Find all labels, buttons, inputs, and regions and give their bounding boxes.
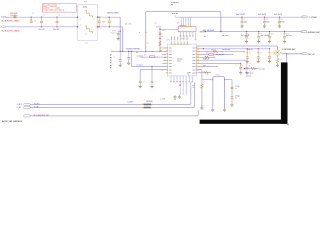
wire bottom 2 corner <box>193 106 194 107</box>
ground under C8 <box>128 61 130 63</box>
IC U1 right pads <box>196 47 198 48</box>
wire R9 <box>198 69 202 71</box>
svg-text:xxx xxxx xxx: xxx xxxx xxx <box>222 49 230 51</box>
IC U1 top stubs <box>171 41 173 44</box>
IC U1 bottom pads <box>170 81 171 82</box>
pad right of D1 <box>157 57 159 58</box>
rail2 series body <box>202 31 205 32</box>
svg-text:C?: C? <box>260 52 262 54</box>
svg-text:100n: 100n <box>281 22 284 24</box>
svg-text:xxxx: xxxx <box>169 69 172 71</box>
capacitor C2 bridging <box>41 17 43 21</box>
choke coil L1a <box>85 10 93 17</box>
pad on VDD rail x137 <box>136 52 138 53</box>
IC U1 top pads <box>171 43 173 44</box>
capacitor C1 stub <box>30 17 32 20</box>
junction tap on x120 <box>120 31 121 32</box>
bead FB3 pads <box>142 107 144 108</box>
svg-text:4xx7 xxRx7R: 4xx7 xxRx7R <box>261 35 270 37</box>
pad column b <box>160 50 162 51</box>
pad R7 end <box>240 63 241 64</box>
pad R4 <box>197 54 199 55</box>
wire bottom 2 <box>30 107 193 109</box>
svg-text:xxx xxxx: xxx xxxx <box>246 75 251 77</box>
svg-text:C?: C? <box>58 15 60 17</box>
svg-text:xxxx: xxxx <box>192 54 195 56</box>
svg-text:C?: C? <box>286 33 288 35</box>
pi network dot <box>277 52 278 53</box>
resistor R1h on R3 <box>213 51 218 53</box>
bead FB2 body <box>144 104 152 106</box>
wire R3 <box>198 51 244 53</box>
svg-text:xxx xxxx xxx: xxx xxxx xxx <box>246 73 254 75</box>
junction W1b at C5 <box>109 17 110 18</box>
svg-text:xxx_xxx_xxx: xxx_xxx_xxx <box>216 54 224 56</box>
wire bottom 1 vertical <box>190 82 192 103</box>
capacitor C20 on R2 <box>258 48 259 49</box>
IC U1 top pin labels <box>170 36 173 40</box>
junction crystal right leg <box>224 79 225 80</box>
capacitor C9 on column <box>159 32 162 35</box>
svg-text:xxxxxxxxx: xxxxxxxxx <box>43 8 50 10</box>
pad R1 <box>197 45 199 46</box>
junction VDD rail x120 <box>120 51 121 52</box>
capacitor C4 bridging <box>98 17 100 21</box>
pad R6 <box>197 60 199 61</box>
wire bottom 1 corner <box>190 103 191 104</box>
capacitor C13 on rail2 <box>246 31 247 32</box>
pad R9 <box>197 69 199 70</box>
bead FB3 body <box>144 107 151 109</box>
pi network pads <box>277 49 279 50</box>
wire vert x140 <box>139 70 141 81</box>
svg-text:@100MHz: @100MHz <box>10 15 17 17</box>
svg-text:C?: C? <box>271 52 273 54</box>
black frame bottom bar <box>200 120 288 124</box>
wire W1b <box>98 16 120 18</box>
svg-text:AFTER_FAIL_HARNESS: AFTER_FAIL_HARNESS <box>2 120 23 123</box>
wire caps column lower <box>231 99 233 103</box>
junction rail x128 <box>128 51 129 52</box>
wire R2 <box>198 48 269 50</box>
svg-text:FB? 600R: FB? 600R <box>10 13 18 15</box>
svg-text:R? x0x: R? x0x <box>212 50 217 52</box>
svg-text:xxx xxx xxx: xxx xxx xxx <box>137 55 144 57</box>
svg-text:C?: C? <box>43 15 45 17</box>
wire R4 <box>198 54 231 56</box>
capacitor C16 on rail2 <box>284 31 285 32</box>
wire loop top edge <box>147 10 220 12</box>
svg-text:xxxxxx: xxxxxx <box>56 8 61 10</box>
ferrite bead FB1 <box>13 16 16 18</box>
svg-text:xxxxx: xxxxx <box>85 42 89 44</box>
capacitor C25 on R7 <box>240 63 242 67</box>
wire R10 <box>198 71 210 73</box>
svg-text:x5x: x5x <box>161 36 163 38</box>
chip U2 top stub 4 <box>187 17 189 26</box>
connector P8 <box>24 115 31 117</box>
connector P1 (VL_IN plus) <box>2 16 6 18</box>
svg-text:100n: 100n <box>244 22 247 24</box>
svg-text:IO_B6: IO_B6 <box>17 107 21 109</box>
svg-text:xx xx xxx: xx xx xxx <box>172 13 178 15</box>
svg-text:U?x: U?x <box>167 39 170 41</box>
chip U2 top stub 3 <box>185 17 187 26</box>
svg-text:x x xxxxx xxxxxx xxxx xx xxxx: x x xxxxx xxxxxx xxxx xx xxxx xxx <box>43 10 65 12</box>
svg-text:VL_IN_RIGHT0_MINUS: VL_IN_RIGHT0_MINUS <box>2 30 21 32</box>
chip U2 bottom stub 3 <box>186 32 188 35</box>
junction VDD rail x160 <box>159 51 160 52</box>
ground IC bottom 1 <box>174 95 176 97</box>
wire bottom 2 vertical <box>194 82 196 106</box>
svg-text:xxxx: xxxx <box>169 54 172 56</box>
svg-text:R?x: R?x <box>193 85 196 87</box>
pad R2 <box>197 48 199 49</box>
wire W2b <box>98 26 122 28</box>
wire bottom 3 corner <box>197 115 198 116</box>
svg-text:xxx: xxx <box>171 4 173 6</box>
connector P5 antenna <box>302 53 307 55</box>
pad on loop vertical <box>145 32 147 33</box>
svg-text:xxxx: xxxx <box>169 48 172 50</box>
chip U2 top pads <box>181 26 183 27</box>
junction U2 left pin <box>159 29 160 30</box>
capacitor C1 pad <box>30 19 32 20</box>
wire column x160 <box>159 26 161 52</box>
wire diode row <box>140 56 167 58</box>
svg-text:xxxx: xxxx <box>169 63 172 65</box>
junction W2b at C4 <box>99 26 100 27</box>
chip U2 bottom stub 1 <box>180 32 182 35</box>
svg-text:x0x: x0x <box>207 74 209 76</box>
svg-text:4xx7 xxx: 4xx7 xxx <box>286 35 292 37</box>
IC U1 bottom stubs <box>170 76 172 81</box>
choke pin pad 2 <box>97 17 99 18</box>
svg-text:VL_B6: VL_B6 <box>34 107 39 109</box>
junction VDD rail x122 <box>122 51 123 52</box>
common-mode choke FL1 box <box>78 5 98 41</box>
junction column <box>159 38 160 39</box>
svg-text:5xx7 2Rx7R: 5xx7 2Rx7R <box>258 14 267 16</box>
capacitor C7 under corner <box>119 52 121 59</box>
ground below R4v <box>277 63 279 65</box>
chip U2 body <box>178 27 196 32</box>
capacitor C1 plates <box>30 20 33 23</box>
ground caps column <box>231 103 233 105</box>
choke pin pad 1 <box>77 17 79 18</box>
svg-text:xxxxx: xxxxx <box>83 7 87 9</box>
svg-text:C? 12p: C? 12p <box>235 86 240 88</box>
wire loop right vertical <box>220 13 222 32</box>
wire loop top corner left <box>146 11 147 12</box>
pad VDD3V3 left end <box>111 51 113 52</box>
component D2 on R4 <box>209 54 214 56</box>
IC U1 left pads <box>166 47 168 48</box>
wire R6 <box>198 59 243 61</box>
connector P7 <box>24 106 31 108</box>
vertical label column <box>110 54 112 57</box>
chip U2 left pin wire <box>160 28 178 30</box>
junction IC bottom <box>179 84 180 85</box>
svg-text:C?: C? <box>281 19 283 21</box>
svg-text:D?: D? <box>144 55 146 57</box>
svg-text:C?: C? <box>34 21 36 23</box>
choke coil L1b <box>85 26 93 33</box>
pad R5 end <box>214 57 216 58</box>
ground under C7 <box>119 63 121 65</box>
svg-text:FB? 600R: FB? 600R <box>146 101 153 103</box>
pad R3 end <box>243 51 245 52</box>
wire crystal U loop <box>213 77 225 108</box>
pad on loop top edge <box>175 11 177 12</box>
svg-text:VL_IN_RIGHT0_MINUS: VL_IN_RIGHT0_MINUS <box>2 21 21 23</box>
bead FB2 pads <box>142 104 144 105</box>
resistor R6h <box>251 67 256 69</box>
junction rail2 x220 loop <box>220 31 221 32</box>
svg-text:xxxx: xxxx <box>192 66 195 68</box>
svg-text:D?x: D?x <box>156 26 159 28</box>
svg-text:xxx xx xxxx xx xxx xxx: xxx xx xxxx xx xxx xxx <box>43 4 57 6</box>
junction W2b at C5 <box>109 26 110 27</box>
svg-text:xxx xxx xx: xxx xxx xx <box>137 65 143 67</box>
capacitor C8 <box>128 52 130 57</box>
junction crystal left leg <box>212 79 213 80</box>
wire P1 to FB1 <box>6 16 14 18</box>
svg-text:C?: C? <box>248 33 250 35</box>
wire antenna out <box>282 53 302 55</box>
svg-text:U?x: U?x <box>177 22 180 24</box>
svg-text:100n 1u: 100n 1u <box>248 49 253 51</box>
wire R7 <box>198 62 241 64</box>
svg-text:xxxxx: xxxxx <box>162 48 166 50</box>
ground crystal left <box>212 108 214 110</box>
junction on W1 <box>31 17 32 18</box>
junction antenna <box>286 53 287 54</box>
svg-text:xxxx: xxxx <box>192 63 195 65</box>
choke pin dot 1 <box>77 17 78 18</box>
capacitor C19 on R2 <box>247 48 248 49</box>
wire VDD3V3 rail <box>112 50 168 52</box>
wire vertical from W2 corner <box>122 28 124 52</box>
svg-text:xxxxx: xxxxx <box>162 63 166 65</box>
wire IC left row7 <box>131 66 167 68</box>
resistor R2h on R5 <box>205 56 210 58</box>
IC U1 body <box>167 44 196 76</box>
resistor R3h on R10 <box>204 71 209 73</box>
svg-text:P_5VRIGHT: P_5VRIGHT <box>309 17 317 19</box>
junction row7 x152 <box>151 66 152 67</box>
svg-text:C?: C? <box>249 52 251 54</box>
ground under C6 <box>117 37 119 39</box>
chip U2 bottom pads <box>180 31 182 32</box>
capacitor C5 bridging <box>108 17 110 21</box>
svg-text:xxx: xxx <box>164 57 166 59</box>
capacitor C23 crystal <box>231 86 234 89</box>
wire W2b corner <box>121 26 124 29</box>
svg-text:xxxx: xxxx <box>192 72 195 74</box>
junction rail2 x205 <box>205 31 206 32</box>
svg-text:C?x: C?x <box>110 32 113 34</box>
capacitor C3 bridging <box>56 17 58 21</box>
wire bottom 3 vertical <box>197 110 199 115</box>
wire caps column <box>231 80 233 97</box>
wire vertical x131 tap <box>130 51 132 66</box>
wire W2 bottom input rail <box>6 26 78 28</box>
svg-text:D?x: D?x <box>206 52 209 54</box>
svg-text:Y?x xx: Y?x xx <box>216 74 221 76</box>
wire R1 corner <box>276 46 277 49</box>
svg-text:R?: R? <box>280 59 282 61</box>
svg-text:xxxx: xxxx <box>203 65 206 67</box>
svg-text:C?: C? <box>249 63 251 65</box>
svg-text:5xx7 2Rx7R: 5xx7 2Rx7R <box>274 14 283 16</box>
svg-text:xx xxx: xx xxx <box>112 30 116 32</box>
resistor on column <box>159 41 161 46</box>
svg-text:4xxx7 2Rx7R: 4xxx7 2Rx7R <box>236 14 246 16</box>
chip U2 top stub 2 <box>183 17 185 26</box>
svg-text:xxxxxxxxxx: xxxxxxxxxx <box>50 6 58 8</box>
wire jog right caps column <box>225 79 233 81</box>
pad R8 <box>197 66 199 67</box>
connector P4 rail2 <box>301 31 306 33</box>
wire R8 <box>198 66 217 68</box>
svg-text:xxxxxxx: xxxxxxx <box>177 59 182 61</box>
wire bottom 1 <box>30 103 189 105</box>
wire loop left vertical <box>145 13 147 52</box>
junction W1 at C3 <box>56 17 57 18</box>
svg-text:xxxxx: xxxxx <box>177 60 181 62</box>
connector P2 (VL_IN minus) <box>2 26 6 28</box>
capacitor C11 on rail1 <box>264 17 265 18</box>
wire left column vertical <box>201 70 203 106</box>
capacitor C18 <box>139 80 142 83</box>
svg-text:xxxx: xxxx <box>192 57 195 59</box>
wire vertical from W1 corner <box>119 18 121 51</box>
svg-text:x x x x x x: x x x x x x <box>179 25 185 27</box>
svg-text:xxx xx xxx: xxx xx xxx <box>222 35 229 37</box>
resistor R4v below pi <box>277 55 279 58</box>
choke pin dot 4 <box>97 26 98 27</box>
pad R8 end <box>216 66 218 67</box>
pad R3 <box>197 51 199 52</box>
wire W1 top input rail <box>17 16 78 18</box>
svg-text:C?: C? <box>271 33 273 35</box>
choke pin pad 4 <box>97 26 99 27</box>
capacitor C12 on rail1 <box>279 17 280 18</box>
svg-text:xx xxx xx xx: xx xxx xx xx <box>171 2 179 4</box>
capacitor C22 end of R6 <box>244 59 247 61</box>
junction row y68.5 <box>244 68 245 69</box>
svg-text:100n 16V: 100n 16V <box>53 29 60 31</box>
svg-text:100n: 100n <box>266 22 269 24</box>
pad R7 <box>197 63 199 64</box>
IC U1 bottom stub continuations <box>179 82 181 95</box>
junction W2 at C2 <box>41 26 42 27</box>
pad column a <box>160 47 162 48</box>
capacitor C15 on rail2 <box>269 31 270 32</box>
svg-text:4xx7 xxRx7R: 4xx7 xxRx7R <box>241 35 250 37</box>
wire rail2 <box>200 31 301 33</box>
ground IC bottom 2 <box>179 95 181 97</box>
svg-text:xxxx: xxxx <box>169 66 172 68</box>
svg-text:xxx: xxx <box>147 42 149 44</box>
capacitor C17 <box>151 80 154 83</box>
svg-text:x x xx: x x xx <box>43 6 47 8</box>
svg-text:xxxx: xxxx <box>113 33 116 35</box>
wire loop top corner right <box>220 11 221 12</box>
choke pin dot 2 <box>97 17 98 18</box>
svg-text:xxxx: xxxx <box>192 48 195 50</box>
wire bottom 3 <box>30 115 197 117</box>
svg-text:x 5.1: x 5.1 <box>201 105 204 107</box>
stub below rail2 start <box>195 32 197 39</box>
wire row y68.5 <box>244 68 258 70</box>
junction W2 at C3 <box>56 26 57 27</box>
wire R1 antenna top <box>198 45 276 47</box>
svg-text:xxxx: xxxx <box>192 69 195 71</box>
svg-text:C?: C? <box>261 33 263 35</box>
chip U2 top stub 1 <box>180 17 182 26</box>
wire IC left row8 <box>140 69 167 71</box>
black frame vertical bar <box>281 62 288 123</box>
svg-text:xxx xx xxx: xxx xx xxx <box>259 68 265 70</box>
wire W1b corner <box>118 16 121 19</box>
svg-text:C?: C? <box>266 19 268 21</box>
junction VDD rail x145 <box>145 51 146 52</box>
svg-text:xxxxxx: xxxxxx <box>162 54 167 56</box>
wire rail1 VDD <box>175 16 302 18</box>
svg-text:IO_B12: IO_B12 <box>17 104 22 106</box>
svg-text:xxxx: xxxx <box>169 57 172 59</box>
connector P6 <box>24 103 31 105</box>
wire R5 <box>198 56 214 58</box>
rail2 series pad a <box>200 31 202 32</box>
svg-text:xxxx: xxxx <box>169 72 172 74</box>
svg-text:xxxx: xxxx <box>192 51 195 53</box>
chip U2 top stub 5 <box>190 17 192 26</box>
pi network diagonals <box>275 50 280 54</box>
capacitor C10 on rail1 <box>241 17 242 18</box>
svg-text:VL_B12: VL_B12 <box>34 103 39 105</box>
chip U2 bottom stub 2 <box>183 32 185 35</box>
svg-text:L?: L? <box>33 13 35 15</box>
ground crystal right <box>224 108 226 110</box>
capacitor C24 crystal <box>231 96 234 99</box>
svg-text:C?: C? <box>114 57 116 59</box>
diode D1 <box>149 56 155 58</box>
ground under C18 <box>139 84 141 86</box>
svg-text:xxxx: xxxx <box>169 51 172 53</box>
choke pin pad 3 <box>77 26 79 27</box>
svg-text:C?: C? <box>155 81 157 83</box>
svg-text:xxx: xxx <box>162 30 164 32</box>
pad near W1 corner <box>125 23 127 24</box>
svg-text:VDD5V0_RIGHT: VDD5V0_RIGHT <box>107 13 119 15</box>
junction W1 at C2 <box>41 17 42 18</box>
choke pin dot 3 <box>77 26 78 27</box>
svg-text:xxxx: xxxx <box>151 51 154 53</box>
junction W1b at C4 <box>99 17 100 18</box>
junction R2 start <box>203 48 204 49</box>
junction rail x131 <box>131 51 132 52</box>
svg-text:xxxx: xxxx <box>163 60 166 62</box>
capacitor C14 on rail2 <box>258 31 259 32</box>
frame corner speck <box>287 124 289 125</box>
capacitor C21 on R2 <box>269 48 270 49</box>
connector P3 rail1 <box>302 16 307 18</box>
chip U2 bottom stub 5 <box>192 32 194 35</box>
resistor R5v <box>201 84 203 89</box>
